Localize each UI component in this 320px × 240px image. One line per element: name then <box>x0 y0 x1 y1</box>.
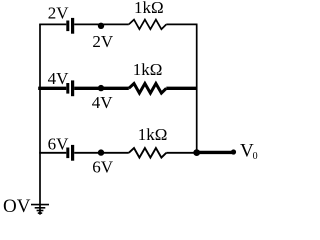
svg-text:6V: 6V <box>48 135 70 154</box>
svg-text:OV: OV <box>3 196 31 217</box>
svg-text:1kΩ: 1kΩ <box>134 0 164 17</box>
svg-text:2V: 2V <box>92 32 114 51</box>
svg-text:4V: 4V <box>92 93 114 112</box>
svg-text:6V: 6V <box>92 157 114 176</box>
svg-text:1kΩ: 1kΩ <box>133 60 163 79</box>
svg-text:4V: 4V <box>48 69 70 88</box>
svg-text:1kΩ: 1kΩ <box>138 125 168 144</box>
svg-text:2V: 2V <box>48 3 70 22</box>
svg-text:0: 0 <box>253 151 258 162</box>
